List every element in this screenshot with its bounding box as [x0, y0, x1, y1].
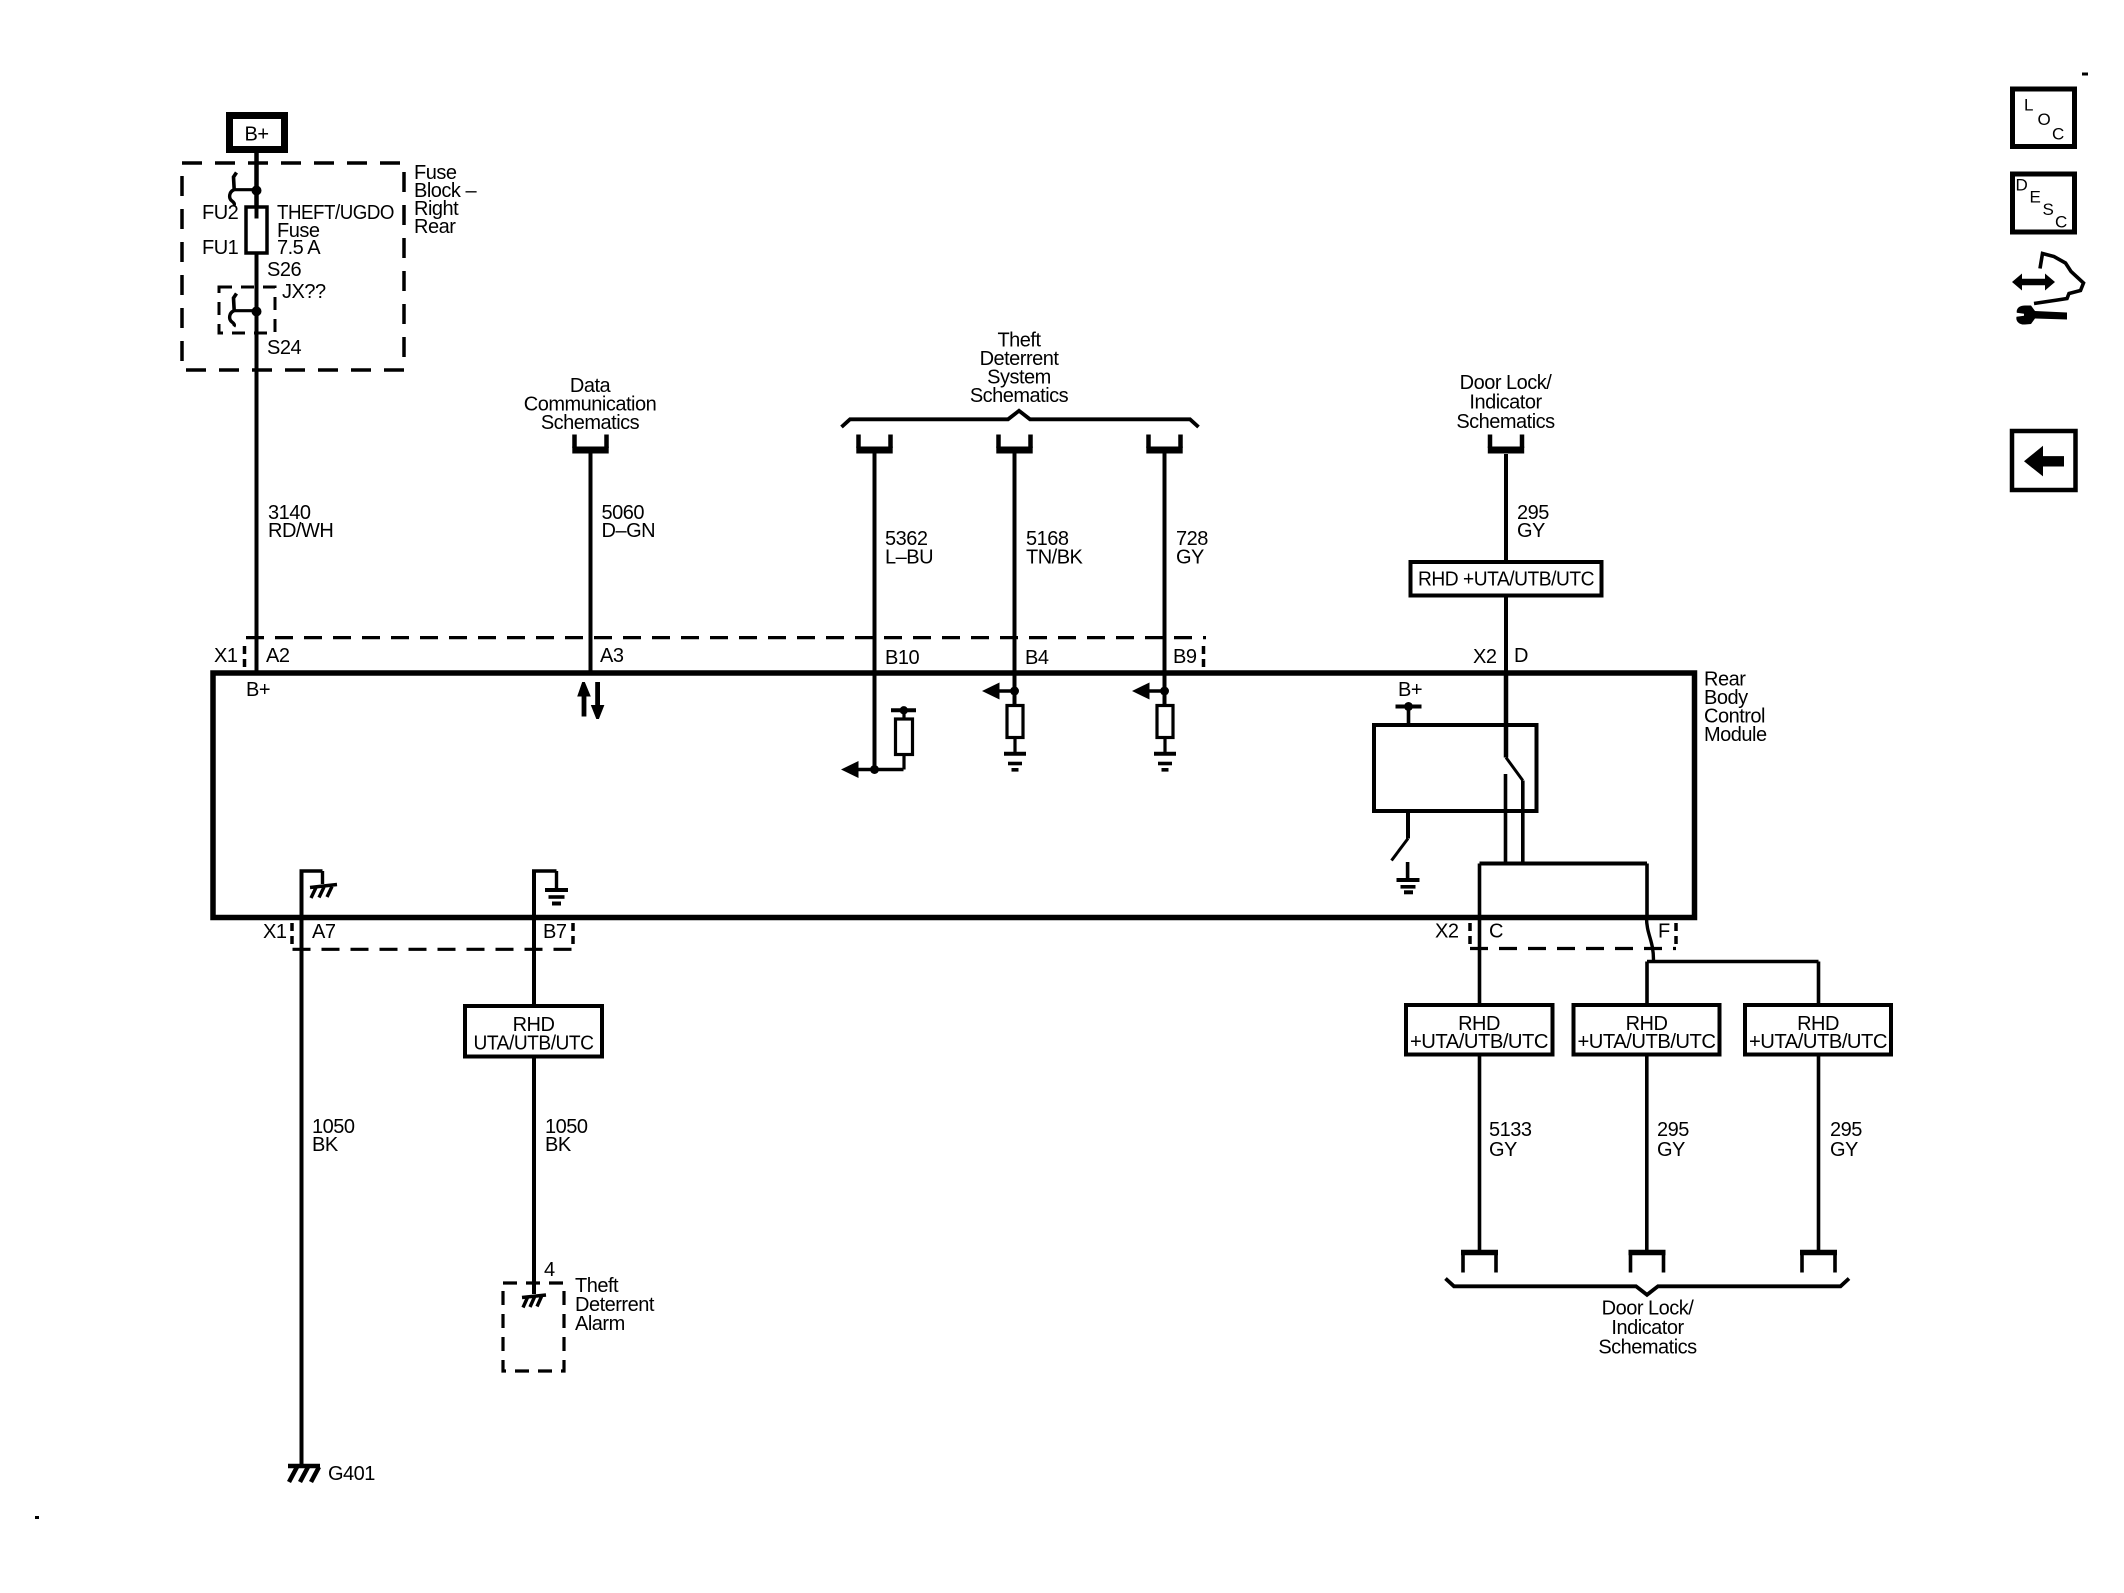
- connector to door lock (3): [1800, 1253, 1837, 1273]
- label Rear Body Control Module: [1704, 669, 1767, 747]
- wire label 5060 D-GN: [602, 502, 656, 542]
- wire label 1050 BK (right): [545, 1116, 588, 1156]
- wire A3 serial data: [589, 454, 593, 672]
- svg-text:A2: A2: [266, 645, 290, 667]
- wire B9: [1163, 454, 1167, 672]
- svg-text:GY: GY: [1517, 520, 1545, 542]
- svg-text:+UTA/UTB/UTC: +UTA/UTB/UTC: [1749, 1031, 1887, 1053]
- wire A7 ground 1050 BK: [300, 917, 304, 1464]
- label Data Communication Schematics: [524, 375, 656, 434]
- internal bus to pins C and F: [1480, 862, 1648, 866]
- relay fixed contact left: [1504, 774, 1508, 864]
- icon DESC button: [2013, 174, 2075, 232]
- resistor B9: [1157, 706, 1173, 753]
- svg-text:Alarm: Alarm: [575, 1313, 625, 1335]
- svg-text:RHD +UTA/UTB/UTC: RHD +UTA/UTB/UTC: [1418, 569, 1594, 591]
- svg-text:GY: GY: [1176, 547, 1204, 569]
- wire label 295 GY (right): [1830, 1119, 1862, 1161]
- option box RHD UTA/UTB/UTC (left): [465, 1006, 602, 1057]
- svg-text:Module: Module: [1704, 724, 1767, 746]
- svg-text:BK: BK: [312, 1134, 339, 1156]
- wire label 295 GY: [1517, 502, 1549, 542]
- wire B+ to fuse FU2: [254, 153, 259, 207]
- stray mark top right: [2082, 73, 2088, 76]
- svg-text:GY: GY: [1657, 1139, 1685, 1161]
- brace under door lock outputs: [1446, 1279, 1850, 1295]
- resistor B4: [1007, 706, 1023, 753]
- connector joint inside JX??: [230, 294, 262, 327]
- svg-text:B7: B7: [543, 921, 567, 943]
- label Fuse Block - Right Rear: [414, 162, 477, 238]
- svg-text:FU1: FU1: [202, 237, 239, 259]
- label THEFT/UGDO Fuse 7.5 A: [277, 202, 394, 259]
- wire 5133 GY: [1478, 1055, 1482, 1252]
- svg-text:O: O: [2038, 110, 2051, 129]
- svg-text:X1: X1: [214, 645, 238, 667]
- svg-text:C: C: [2055, 213, 2067, 232]
- option box RHD +UTA/UTB/UTC (1): [1406, 1005, 1553, 1055]
- junction JX?? dashed box: [219, 287, 275, 333]
- connector cup to data communication: [572, 435, 608, 451]
- top connector dashed line X1: [245, 638, 1207, 668]
- bottom connector dashed line X1: [292, 923, 573, 949]
- relay coil box: [1374, 725, 1537, 811]
- svg-text:7.5 A: 7.5 A: [277, 237, 321, 259]
- connector joint at fuse block entry: [230, 173, 262, 206]
- icon LOC button: [2013, 89, 2075, 147]
- svg-text:B10: B10: [885, 647, 919, 669]
- svg-text:B+: B+: [1398, 679, 1422, 701]
- svg-text:D: D: [1514, 645, 1528, 667]
- relay B+ node: [1396, 679, 1423, 725]
- wire label 5362 L-BU: [885, 528, 933, 569]
- svg-text:Rear: Rear: [414, 216, 456, 238]
- serial data up/down arrows at A3: [577, 682, 604, 719]
- icon flow/tools: [2012, 254, 2084, 325]
- label Door Lock/ Indicator Schematics: [1456, 372, 1555, 433]
- module outline: [213, 673, 1695, 918]
- relay coil ground with switch: [1392, 811, 1420, 892]
- wire label 1050 BK (left): [312, 1116, 355, 1156]
- icon back arrow button: [2012, 431, 2076, 490]
- svg-text:295: 295: [1830, 1119, 1862, 1141]
- svg-text:X2: X2: [1473, 646, 1497, 668]
- label Door Lock/ Indicator Schematics (bottom): [1598, 1298, 1697, 1359]
- svg-text:S: S: [2043, 200, 2054, 219]
- wire 295 GY (center): [1645, 1055, 1649, 1252]
- connector to door lock (1): [1461, 1253, 1498, 1273]
- wire fuse to splice S24: [255, 253, 259, 671]
- svg-text:L–BU: L–BU: [885, 547, 933, 569]
- svg-text:G401: G401: [328, 1463, 375, 1485]
- wire to pin D: [1504, 596, 1508, 674]
- svg-text:+UTA/UTB/UTC: +UTA/UTB/UTC: [1410, 1031, 1548, 1053]
- B10 internal: wire down, left arrow, pull-up resistor: [841, 671, 904, 778]
- connector to door lock (2): [1629, 1253, 1666, 1273]
- svg-text:C: C: [1489, 921, 1503, 943]
- wire D into relay: [1504, 673, 1509, 758]
- fuse block dashed outline "Fuse Block - Right Rear": [182, 163, 404, 370]
- svg-text:Schematics: Schematics: [970, 385, 1069, 407]
- svg-text:GY: GY: [1830, 1139, 1858, 1161]
- svg-text:F: F: [1658, 921, 1670, 943]
- A7 internal chassis ground: [300, 871, 338, 917]
- wire to pin F and branches: [1647, 864, 1819, 1006]
- svg-text:D–GN: D–GN: [602, 520, 656, 542]
- svg-text:BK: BK: [545, 1134, 572, 1156]
- connector cup door lock feed: [1488, 435, 1524, 451]
- svg-text:Schematics: Schematics: [1456, 411, 1555, 433]
- svg-text:RD/WH: RD/WH: [268, 520, 333, 542]
- wire label 5133 GY: [1489, 1119, 1532, 1161]
- relay switch blade: [1506, 758, 1523, 781]
- wire B4: [1013, 454, 1017, 672]
- B4 internal: left arrow, resistor to ground: [982, 671, 1019, 706]
- resistor at B10 input: [891, 706, 916, 769]
- wire 295 GY (right): [1817, 1055, 1821, 1252]
- brace over theft deterrent connectors: [842, 411, 1199, 427]
- B7 internal earth ground: [532, 871, 568, 917]
- svg-text:A3: A3: [600, 645, 624, 667]
- B9 internal: left arrow, resistor to ground: [1132, 671, 1169, 706]
- wire B7 to theft deterrent alarm: [532, 917, 536, 1006]
- wire label 295 GY (center): [1657, 1119, 1689, 1161]
- svg-text:C: C: [2052, 125, 2064, 144]
- svg-text:S26: S26: [267, 259, 301, 281]
- theft deterrent alarm dashed box: [503, 1283, 564, 1371]
- wire B10: [873, 454, 877, 672]
- wire stub into fuse top: [255, 207, 259, 219]
- connector cup B10 branch: [856, 435, 892, 451]
- svg-text:FU2: FU2: [202, 202, 239, 224]
- svg-text:B9: B9: [1173, 646, 1197, 668]
- ground G401: [288, 1463, 375, 1485]
- wire 295 GY upper: [1504, 454, 1508, 562]
- ground B4 (earth): [1004, 754, 1026, 770]
- fuse THEFT/UGDO 7.5 A: [246, 207, 267, 253]
- svg-text:4: 4: [544, 1259, 555, 1281]
- svg-text:X1: X1: [263, 921, 287, 943]
- battery B+ terminal box: [230, 116, 285, 150]
- svg-text:JX??: JX??: [282, 281, 326, 303]
- svg-text:B+: B+: [246, 679, 270, 701]
- wire 1050 BK to alarm: [532, 1057, 536, 1295]
- stray mark bottom left: [35, 1516, 39, 1519]
- bottom connector dashed line X2: [1470, 923, 1676, 949]
- connector cup B4 branch: [996, 435, 1032, 451]
- svg-text:Schematics: Schematics: [1598, 1337, 1697, 1359]
- svg-text:A7: A7: [312, 921, 336, 943]
- svg-text:B4: B4: [1025, 647, 1049, 669]
- relay switch output: [1521, 781, 1525, 864]
- connector cup B9 branch: [1146, 435, 1182, 451]
- svg-text:S24: S24: [267, 337, 301, 359]
- option box RHD +UTA/UTB/UTC (3): [1745, 1005, 1891, 1055]
- svg-text:D: D: [2016, 176, 2028, 195]
- wire to pin C: [1478, 864, 1482, 1006]
- svg-text:X2: X2: [1435, 921, 1459, 943]
- svg-text:GY: GY: [1489, 1139, 1517, 1161]
- label Theft Deterrent Alarm: [575, 1275, 655, 1335]
- wire label 3140 RD/WH: [268, 502, 333, 542]
- wire label 5168 TN/BK: [1026, 528, 1084, 569]
- label Theft Deterrent System Schematics: [970, 330, 1069, 408]
- svg-text:B+: B+: [244, 124, 268, 146]
- svg-text:5133: 5133: [1489, 1119, 1532, 1141]
- svg-text:Schematics: Schematics: [541, 412, 640, 434]
- svg-text:UTA/UTB/UTC: UTA/UTB/UTC: [474, 1033, 594, 1055]
- ground B9 (earth): [1154, 754, 1176, 770]
- svg-text:TN/BK: TN/BK: [1026, 547, 1084, 569]
- wire label 728 GY: [1176, 528, 1208, 569]
- svg-text:L: L: [2024, 96, 2033, 115]
- svg-text:+UTA/UTB/UTC: +UTA/UTB/UTC: [1578, 1031, 1716, 1053]
- svg-text:295: 295: [1657, 1119, 1689, 1141]
- option box RHD +UTA/UTB/UTC (2): [1574, 1005, 1720, 1055]
- option box RHD +UTA/UTB/UTC: [1411, 562, 1602, 596]
- chassis ground inside alarm: [522, 1295, 546, 1308]
- svg-text:E: E: [2030, 188, 2041, 207]
